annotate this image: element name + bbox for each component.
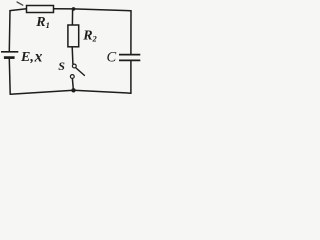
junction dot bottom: [71, 88, 75, 92]
wire left vertical (top corner to battery): [8, 11, 11, 51]
wire right vertical (capacitor to bottom corner): [130, 61, 132, 93]
switch S lower contact circle: [70, 75, 74, 79]
wire middle branch (switch to bottom): [72, 79, 73, 91]
wire top-left horizontal (corner to R1): [10, 9, 27, 11]
svg-text:C: C: [107, 50, 117, 66]
switch S upper contact circle: [72, 64, 76, 68]
wire bottom (left corner to junction to right corner): [10, 90, 131, 94]
capacitor C bottom plate: [119, 59, 140, 61]
wire middle branch (R2 to switch): [71, 47, 74, 64]
battery E,x long plate: [1, 51, 18, 53]
wire middle branch (junction to R2): [71, 9, 73, 25]
resistor R1: [27, 6, 54, 13]
stray pen mark top-left: [17, 2, 23, 5]
wire top-right horizontal (R1 to junction to corner): [54, 9, 132, 11]
svg-text:S: S: [58, 59, 65, 73]
wire left vertical (battery to bottom corner): [8, 59, 11, 94]
svg-text:x: x: [34, 48, 43, 65]
svg-text:E,: E,: [20, 50, 34, 65]
wire right vertical (top corner to capacitor): [130, 11, 132, 54]
capacitor C top plate: [119, 54, 140, 56]
battery E,x short plate: [4, 56, 15, 59]
resistor R2: [68, 25, 79, 47]
junction dot top: [72, 7, 76, 11]
switch S lever: [76, 68, 84, 75]
